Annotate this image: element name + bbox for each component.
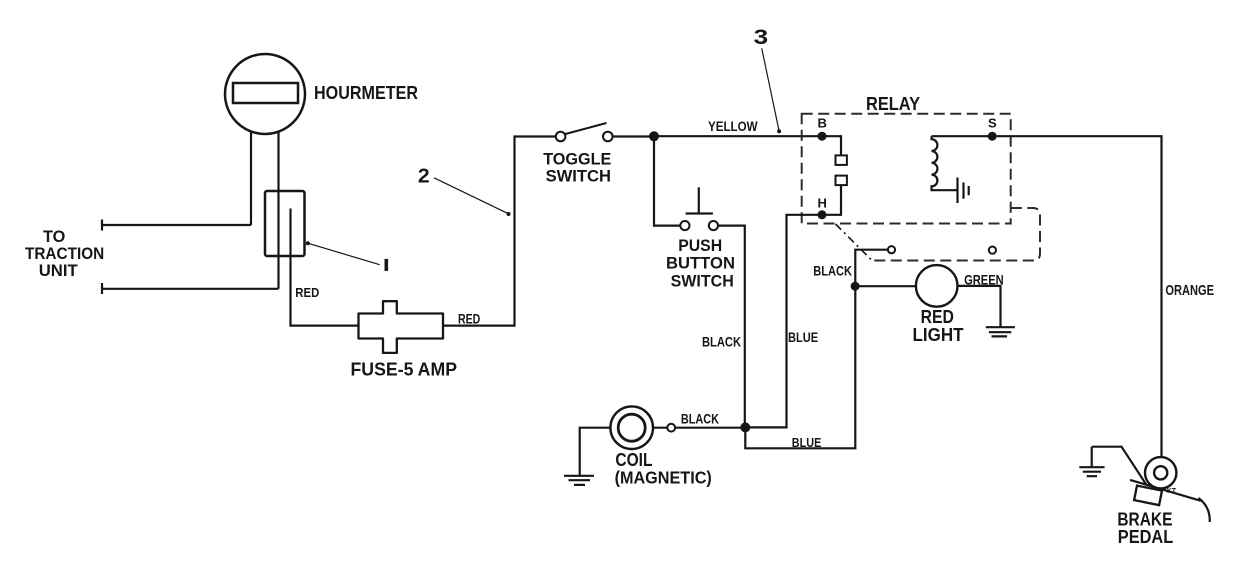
- label BLACK (push button wire): [702, 334, 741, 350]
- wire contact stub to black junction: [855, 250, 887, 282]
- relay armature dash-dot link: [836, 224, 873, 261]
- node TO TRACTION UNIT label: [25, 227, 104, 280]
- label RED (right): [458, 312, 480, 327]
- toggle switch S1: [556, 123, 613, 141]
- svg-text:BLACK: BLACK: [681, 411, 719, 427]
- ground (coil): [564, 476, 594, 485]
- coil output terminal: [667, 424, 675, 432]
- brake pedal ground: [1079, 447, 1104, 477]
- brake pedal pivot: [1145, 457, 1176, 488]
- wire ground stub to pedal linkage: [1092, 447, 1147, 485]
- wire fuse to toggle switch feed: [443, 137, 556, 326]
- label BLACK (coil wire): [681, 411, 719, 427]
- wire RED from fuse holder down to fuse: [291, 209, 359, 326]
- callout label 2: [418, 166, 430, 188]
- junction node coil/black/blue: [740, 422, 750, 432]
- svg-text:RED: RED: [458, 312, 480, 327]
- label B: [818, 116, 827, 131]
- coil (magnetic) L1: [610, 406, 653, 449]
- wire YELLOW junction to relay terminal B: [654, 135, 822, 137]
- svg-text:BUTTON: BUTTON: [666, 255, 735, 273]
- svg-text:GREEN: GREEN: [964, 272, 1004, 288]
- svg-text:BLUE: BLUE: [792, 435, 822, 450]
- wire junction to red light: [855, 285, 916, 287]
- svg-text:BLACK: BLACK: [702, 334, 741, 350]
- svg-text:LIGHT: LIGHT: [913, 325, 964, 345]
- svg-text:RED: RED: [295, 285, 319, 300]
- label KT: [1167, 488, 1177, 495]
- svg-text:BLACK: BLACK: [813, 263, 852, 279]
- wire BLACK push button to coil junction: [718, 226, 745, 428]
- fuse value label FUSE-5 AMP: [351, 360, 458, 380]
- label BLUE (lower): [792, 435, 822, 450]
- brake pedal pad: [1134, 486, 1162, 506]
- callout label 1: [385, 259, 389, 271]
- wire toggle to junction: [613, 135, 654, 137]
- push button switch label: [666, 237, 735, 291]
- relay terminal S node: [988, 132, 997, 141]
- svg-text:PUSH: PUSH: [678, 237, 722, 255]
- wire coil to ground: [580, 428, 611, 475]
- label YELLOW: [708, 118, 758, 134]
- svg-text:HOURMETER: HOURMETER: [314, 83, 418, 103]
- relay output contact left: [888, 246, 895, 253]
- red light label: [913, 307, 964, 345]
- svg-text:SWITCH: SWITCH: [671, 273, 734, 291]
- svg-text:H: H: [818, 196, 827, 211]
- wire hourmeter left stem: [250, 128, 252, 225]
- label ORANGE: [1165, 282, 1214, 299]
- brake pedal arm: [1130, 480, 1210, 522]
- relay contact upper square: [836, 155, 847, 165]
- fuse holder (item 1): [265, 191, 305, 256]
- label H: [818, 196, 827, 211]
- svg-text:2: 2: [418, 166, 430, 188]
- relay terminal B node: [818, 132, 827, 141]
- callout 2 pointer: [434, 178, 511, 216]
- hourmeter M1: [225, 54, 305, 134]
- label S: [988, 116, 997, 131]
- svg-text:YELLOW: YELLOW: [708, 118, 758, 134]
- label RED (left): [295, 285, 319, 300]
- svg-text:ORANGE: ORANGE: [1165, 282, 1214, 299]
- label BLUE (upper): [788, 329, 818, 345]
- callout label 3: [754, 26, 769, 49]
- wire GREEN red light to ground: [958, 286, 1001, 327]
- relay auxiliary dashed contact enclosure: [873, 208, 1040, 261]
- fuse F1 FUSE-5 AMP: [359, 301, 444, 353]
- wire lower contact to H: [822, 185, 841, 215]
- svg-text:FUSE-5 AMP: FUSE-5 AMP: [351, 360, 458, 380]
- wire S to brake pedal (ORANGE): [997, 136, 1162, 457]
- svg-text:3: 3: [754, 26, 769, 49]
- wire coil to terminal S: [932, 135, 993, 137]
- svg-text:S: S: [988, 116, 997, 131]
- wire lower lead to traction unit: [102, 283, 279, 294]
- relay label: [866, 94, 920, 114]
- relay K1 dashed enclosure: [802, 114, 1011, 224]
- svg-text:(MAGNETIC): (MAGNETIC): [615, 468, 712, 488]
- relay terminal H node: [818, 210, 827, 219]
- svg-text:PEDAL: PEDAL: [1118, 527, 1173, 547]
- svg-text:SWITCH: SWITCH: [546, 166, 611, 185]
- red light DS1: [916, 265, 958, 307]
- wire hourmeter right stem: [277, 128, 279, 289]
- wire upper lead to traction unit: [102, 220, 251, 231]
- coil label: [615, 450, 712, 488]
- svg-text:RELAY: RELAY: [866, 94, 920, 114]
- wire H to coil junction (BLUE vertical): [749, 215, 822, 428]
- relay coil winding: [932, 136, 957, 190]
- hourmeter label: [314, 83, 418, 103]
- relay contact lower square: [836, 176, 847, 186]
- wire BLACK coil to junction: [653, 427, 745, 429]
- wire BLUE lower run: [745, 286, 855, 448]
- svg-text:BLUE: BLUE: [788, 329, 818, 345]
- svg-text:UNIT: UNIT: [39, 261, 78, 280]
- label GREEN: [964, 272, 1004, 288]
- label BLACK (relay output): [813, 263, 852, 279]
- toggle switch label: [543, 149, 611, 185]
- wire B to upper contact: [822, 136, 841, 155]
- junction node black/red light: [851, 282, 860, 291]
- brake pedal label: [1117, 509, 1173, 547]
- push button switch S2: [680, 187, 718, 230]
- svg-text:B: B: [818, 116, 827, 131]
- callout 3 pointer: [762, 48, 781, 133]
- relay output contact right: [989, 247, 996, 254]
- ground (red light): [986, 327, 1015, 336]
- junction node at toggle output: [649, 131, 659, 141]
- relay internal ground: [958, 178, 969, 204]
- wire junction down to push button: [654, 136, 680, 225]
- callout 1 pointer: [306, 241, 380, 265]
- svg-text:KT: KT: [1167, 488, 1177, 495]
